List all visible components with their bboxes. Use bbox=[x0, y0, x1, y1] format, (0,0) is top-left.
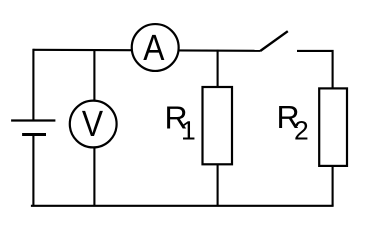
battery cell: long positive plate bbox=[11, 119, 55, 121]
ammeter A circle bbox=[132, 24, 179, 71]
wire: voltmeter branch vertical bbox=[93, 50, 95, 206]
voltmeter V circle bbox=[70, 101, 117, 148]
svg-text:2: 2 bbox=[294, 116, 309, 146]
svg-text:V: V bbox=[82, 103, 104, 144]
wire: switch right contact and R2 branch vertical bbox=[297, 51, 333, 206]
wire: left vertical lower (battery to bottom corner) bbox=[32, 135, 34, 206]
wire: left vertical upper (top corner to battery) bbox=[32, 49, 34, 121]
switch lever (open) bbox=[260, 31, 287, 51]
battery cell: short negative plate bbox=[22, 133, 46, 136]
svg-text:1: 1 bbox=[181, 116, 196, 146]
wire: bottom horizontal bbox=[31, 205, 334, 207]
resistor R1 rectangle bbox=[203, 87, 233, 164]
wire: R1 branch vertical bbox=[217, 50, 219, 206]
svg-text:A: A bbox=[143, 27, 165, 68]
wire: top horizontal from left corner to switch pivot bbox=[33, 50, 260, 51]
resistor R2 rectangle bbox=[319, 88, 347, 165]
